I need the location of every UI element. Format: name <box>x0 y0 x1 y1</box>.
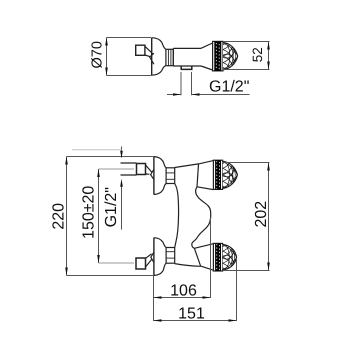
bell escutcheon bottom shoulder <box>152 66 166 76</box>
body flare to handle <box>201 43 213 70</box>
top inlet pipe <box>121 163 137 175</box>
bottom eccentric cone <box>146 252 154 267</box>
151 dim <box>154 320 237 322</box>
bell escutcheon wall edge <box>151 38 153 76</box>
bottom handle crystal dome <box>223 244 237 270</box>
crystal dome <box>223 42 238 70</box>
G1/2 top view dim <box>180 72 182 95</box>
svg-text:202: 202 <box>253 201 270 228</box>
centerlines <box>99 169 135 263</box>
150 arrows <box>97 169 100 177</box>
202 dim <box>268 163 270 271</box>
body left edge <box>175 184 179 248</box>
top collar ring <box>166 168 175 184</box>
top valve base <box>197 164 199 187</box>
svg-text:151: 151 <box>178 306 205 323</box>
dimension texts <box>51 41 270 322</box>
106 dim <box>154 297 211 299</box>
body bottom edge <box>175 264 201 267</box>
dia70 dim <box>106 38 108 76</box>
svg-text:220: 220 <box>51 203 68 230</box>
bottom collar ring <box>166 248 175 264</box>
top neck to handle <box>197 161 213 190</box>
top handle ring housing <box>213 160 222 189</box>
wall shower-bracket cone <box>145 46 154 64</box>
G1/2 leader arrows <box>120 151 123 159</box>
bottom valve base <box>194 248 200 266</box>
top bell escutcheon <box>153 157 155 195</box>
faint auxiliary line <box>72 149 122 151</box>
G1/2 bottom view leader <box>121 147 123 153</box>
outlet nipple G1/2 <box>181 66 192 69</box>
bottom union nut <box>136 258 146 269</box>
top union nut <box>137 164 146 175</box>
svg-text:52: 52 <box>250 47 265 62</box>
220 dim <box>66 157 68 276</box>
top handle crystal dome <box>223 161 238 188</box>
bottom bell escutcheon <box>153 238 155 276</box>
106 arrows <box>154 296 162 299</box>
faucet body (side) <box>173 48 201 66</box>
wall shower-bracket nut <box>136 45 145 55</box>
top eccentric cone <box>146 165 154 180</box>
bottom handle ring housing <box>213 243 222 271</box>
knurled band <box>214 41 221 71</box>
svg-text:G1/2": G1/2" <box>209 79 249 96</box>
handle ring housing <box>213 41 223 71</box>
202 arrows <box>267 163 270 171</box>
body top edge <box>175 164 199 168</box>
collar ring <box>166 49 173 65</box>
G1/2 top arrows <box>173 93 181 96</box>
bottom neck to handle <box>194 244 213 271</box>
svg-text:150±20: 150±20 <box>81 186 98 239</box>
svg-text:G1/2": G1/2" <box>103 187 120 227</box>
52 arrows <box>267 42 270 50</box>
151 arrows <box>154 319 162 322</box>
bell escutcheon top shoulder <box>152 38 166 50</box>
svg-text:Ø70: Ø70 <box>90 41 106 68</box>
arrowheads <box>65 38 270 322</box>
220 arrows <box>65 157 68 165</box>
150+-20 dim <box>98 169 100 263</box>
52 dim <box>268 42 270 70</box>
dia70 arrows <box>105 38 108 46</box>
body right edge S-curve <box>192 187 211 249</box>
svg-text:106: 106 <box>170 282 197 299</box>
